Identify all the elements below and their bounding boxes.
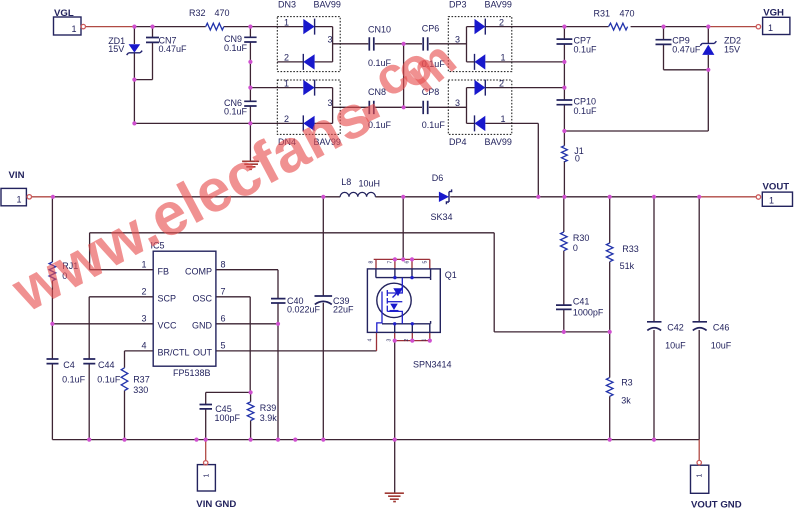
svg-text:VCC: VCC [158, 321, 178, 331]
svg-text:R32: R32 [189, 8, 206, 18]
svg-text:100pF: 100pF [215, 413, 241, 423]
svg-text:10uF: 10uF [711, 341, 732, 351]
svg-text:R39: R39 [260, 403, 277, 413]
svg-text:OUT: OUT [193, 348, 213, 358]
svg-text:C41: C41 [573, 297, 590, 307]
svg-text:5: 5 [221, 341, 226, 351]
svg-text:1: 1 [284, 78, 289, 88]
svg-text:1: 1 [500, 53, 505, 63]
svg-text:D6: D6 [432, 173, 444, 183]
svg-text:1: 1 [500, 114, 505, 124]
svg-text:VOUT GND: VOUT GND [691, 500, 742, 510]
svg-text:VGL: VGL [54, 8, 74, 19]
svg-text:BR/CTL: BR/CTL [158, 348, 190, 358]
svg-text:R30: R30 [573, 233, 590, 243]
svg-text:7: 7 [221, 287, 226, 297]
svg-text:6: 6 [405, 261, 411, 264]
svg-text:OSC: OSC [192, 294, 212, 304]
svg-text:R33: R33 [622, 244, 639, 254]
svg-text:15V: 15V [108, 44, 124, 54]
svg-text:2: 2 [499, 17, 504, 27]
svg-text:330: 330 [133, 385, 148, 395]
svg-text:2: 2 [404, 339, 410, 342]
svg-text:C42: C42 [667, 323, 684, 333]
svg-text:0.022uF: 0.022uF [287, 304, 321, 314]
svg-text:6: 6 [221, 314, 226, 324]
svg-text:3: 3 [327, 35, 332, 45]
svg-text:3: 3 [141, 314, 146, 324]
svg-text:3: 3 [387, 339, 393, 342]
svg-text:4: 4 [368, 339, 374, 342]
svg-text:470: 470 [620, 9, 635, 19]
svg-text:3k: 3k [621, 395, 631, 405]
svg-text:3: 3 [455, 98, 460, 108]
svg-text:10uF: 10uF [665, 341, 686, 351]
svg-text:15V: 15V [724, 45, 740, 55]
svg-text:1: 1 [768, 23, 773, 33]
svg-text:BAV99: BAV99 [485, 0, 512, 9]
svg-text:COMP: COMP [185, 267, 212, 277]
svg-text:Q1: Q1 [445, 270, 457, 280]
svg-text:7: 7 [388, 261, 394, 264]
svg-text:SPN3414: SPN3414 [413, 359, 452, 369]
svg-text:C46: C46 [713, 323, 730, 333]
svg-text:5: 5 [423, 261, 429, 264]
svg-text:VIN GND: VIN GND [196, 499, 236, 510]
svg-text:1: 1 [284, 17, 289, 27]
svg-text:C44: C44 [98, 360, 115, 370]
svg-text:22uF: 22uF [333, 304, 354, 314]
svg-text:2: 2 [499, 78, 504, 88]
svg-text:CP10: CP10 [574, 97, 597, 107]
svg-text:SCP: SCP [158, 294, 177, 304]
svg-text:3.9k: 3.9k [260, 413, 278, 423]
svg-text:FP5138B: FP5138B [173, 368, 211, 378]
svg-text:0.47uF: 0.47uF [672, 44, 701, 54]
svg-text:DP3: DP3 [449, 0, 467, 9]
svg-text:R31: R31 [594, 9, 611, 19]
svg-text:0.47uF: 0.47uF [159, 44, 188, 54]
svg-text:0.1uF: 0.1uF [574, 106, 598, 116]
svg-text:VIN: VIN [9, 170, 25, 181]
svg-text:3: 3 [455, 35, 460, 45]
svg-text:1: 1 [422, 339, 428, 342]
svg-text:470: 470 [215, 8, 230, 18]
svg-text:1: 1 [697, 474, 704, 478]
svg-text:1: 1 [204, 474, 211, 478]
svg-text:0.1uF: 0.1uF [422, 120, 446, 130]
svg-text:0.1uF: 0.1uF [62, 375, 86, 385]
svg-text:1: 1 [769, 195, 774, 205]
svg-text:0.1uF: 0.1uF [224, 107, 248, 117]
svg-text:R37: R37 [133, 375, 150, 385]
svg-text:2: 2 [141, 287, 146, 297]
svg-text:1: 1 [71, 24, 76, 34]
svg-text:4: 4 [141, 341, 146, 351]
svg-text:VGH: VGH [763, 8, 784, 19]
svg-text:0.1uF: 0.1uF [224, 43, 248, 53]
svg-text:0: 0 [573, 243, 578, 253]
svg-text:0.1uF: 0.1uF [574, 44, 598, 54]
svg-text:DP4: DP4 [449, 137, 467, 147]
svg-text:C4: C4 [63, 360, 75, 370]
svg-text:BAV99: BAV99 [485, 137, 512, 147]
svg-text:0.1uF: 0.1uF [97, 375, 121, 385]
svg-text:8: 8 [221, 260, 226, 270]
svg-text:BAV99: BAV99 [314, 0, 341, 9]
svg-text:0: 0 [575, 154, 580, 164]
svg-text:CN10: CN10 [368, 24, 391, 34]
svg-text:10uH: 10uH [359, 178, 381, 188]
svg-text:1: 1 [16, 195, 21, 205]
svg-text:8: 8 [369, 261, 375, 264]
svg-text:1000pF: 1000pF [573, 308, 604, 318]
svg-text:R3: R3 [621, 377, 633, 387]
svg-text:FB: FB [158, 267, 170, 277]
svg-text:SK34: SK34 [431, 212, 453, 222]
svg-text:2: 2 [284, 53, 289, 63]
svg-text:GND: GND [192, 321, 213, 331]
svg-text:51k: 51k [620, 261, 635, 271]
svg-text:L8: L8 [341, 177, 351, 187]
svg-text:VOUT: VOUT [763, 182, 790, 193]
svg-text:DN3: DN3 [278, 0, 296, 9]
